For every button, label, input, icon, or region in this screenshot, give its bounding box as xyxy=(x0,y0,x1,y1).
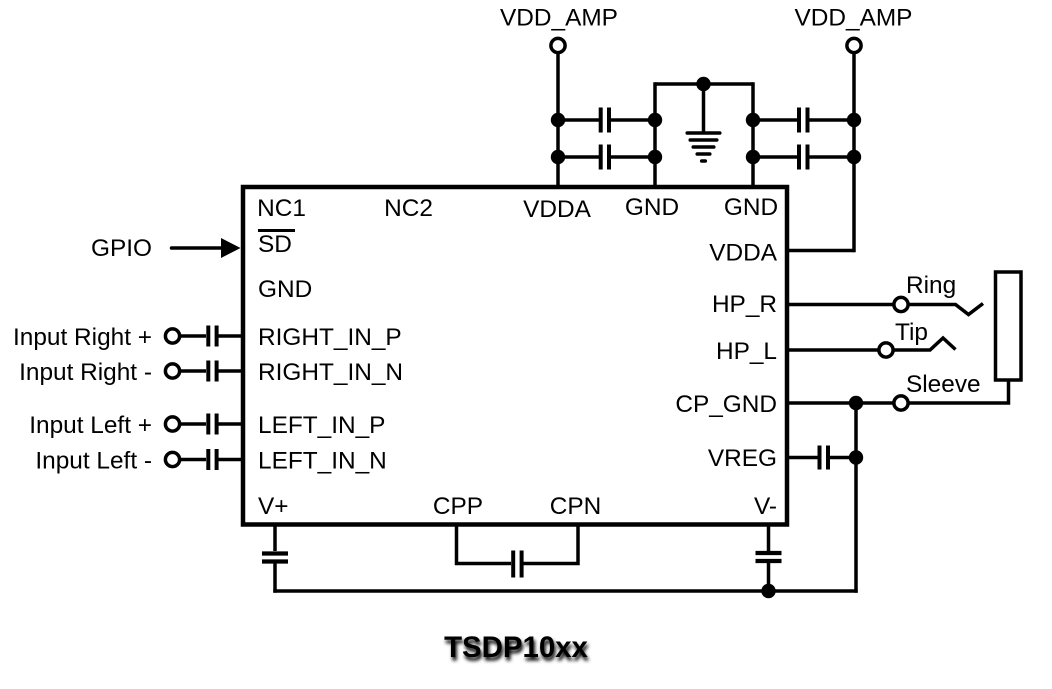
capacitor C1 xyxy=(558,108,655,133)
svg-text:TSDP10xx: TSDP10xx xyxy=(444,631,588,664)
svg-text:V-: V- xyxy=(754,493,777,520)
node junction at C2 left xyxy=(551,150,565,164)
svg-text:Ring: Ring xyxy=(906,272,956,299)
svg-text:GND: GND xyxy=(625,194,679,221)
wire Sleeve to jack xyxy=(909,379,1009,403)
svg-text:Input Left +: Input Left + xyxy=(29,412,152,439)
svg-text:RIGHT_IN_P: RIGHT_IN_P xyxy=(258,324,402,351)
node junction at C1 right xyxy=(648,113,662,127)
terminal Sleeve xyxy=(894,396,908,410)
svg-text:RIGHT_IN_N: RIGHT_IN_N xyxy=(258,359,403,386)
wire Tip switch contact xyxy=(894,338,956,350)
svg-text:HP_R: HP_R xyxy=(712,291,777,318)
capacitor C5 xyxy=(181,326,243,347)
wire GND pin 1 vertical xyxy=(653,82,657,187)
node junction V- cap at rail xyxy=(761,584,775,598)
node junction CP_GND rail xyxy=(849,396,863,410)
node junction at C2 right xyxy=(648,150,662,164)
capacitor C7 xyxy=(181,414,243,435)
svg-text:LEFT_IN_P: LEFT_IN_P xyxy=(258,412,385,439)
svg-text:NC2: NC2 xyxy=(384,195,433,222)
capacitor C10 xyxy=(262,525,288,593)
wire CP_GND to Sleeve xyxy=(786,401,894,405)
node junction at C3 right xyxy=(847,113,861,127)
node junction at C3 left xyxy=(746,113,760,127)
svg-text:CP_GND: CP_GND xyxy=(675,391,777,418)
wire bottom rail xyxy=(273,589,857,593)
svg-text:GND: GND xyxy=(724,194,778,221)
terminal VDD_AMP right xyxy=(847,38,861,52)
wire Ring switch contact xyxy=(909,304,984,315)
terminal Input Left + xyxy=(165,417,179,431)
svg-text:VDD_AMP: VDD_AMP xyxy=(500,5,618,32)
svg-text:VREG: VREG xyxy=(708,445,777,472)
svg-text:HP_L: HP_L xyxy=(716,338,777,365)
wire VDD_AMP right down to VDDA right pin xyxy=(852,53,856,252)
capacitor C9 xyxy=(786,446,856,470)
node junction at C4 right xyxy=(847,150,861,164)
terminal Input Right - xyxy=(165,364,179,378)
capacitor C11 xyxy=(457,525,579,578)
terminal Tip xyxy=(879,343,893,357)
wire GPIO arrowhead xyxy=(221,238,241,258)
capacitor C2 xyxy=(558,145,655,170)
capacitor C12 xyxy=(756,525,782,592)
svg-text:VDD_AMP: VDD_AMP xyxy=(795,5,913,32)
wire VDDA right pin xyxy=(786,249,854,253)
node junction at C1 left xyxy=(551,113,565,127)
svg-text:VDDA: VDDA xyxy=(523,196,591,223)
terminal Input Right + xyxy=(165,329,179,343)
svg-text:Sleeve: Sleeve xyxy=(906,371,981,398)
svg-text:CPP: CPP xyxy=(433,493,483,520)
ground xyxy=(687,84,720,161)
capacitor C4 xyxy=(753,145,854,170)
svg-text:Input Left -: Input Left - xyxy=(35,448,152,475)
wire HP_R to Ring contact xyxy=(786,303,894,307)
wire GND pin 2 vertical xyxy=(751,82,755,187)
svg-text:SD: SD xyxy=(258,231,292,258)
svg-text:GND: GND xyxy=(258,276,312,303)
capacitor C6 xyxy=(181,361,243,382)
capacitor C8 xyxy=(181,449,243,470)
node junction at C4 left xyxy=(746,150,760,164)
jack J1 body xyxy=(996,272,1022,380)
wire GPIO arrow shaft xyxy=(172,246,225,250)
wire HP_L to Tip contact xyxy=(786,348,879,352)
wire VDD_AMP left down to VDDA pin xyxy=(556,54,560,188)
svg-text:VDDA: VDDA xyxy=(709,240,777,267)
svg-text:GPIO: GPIO xyxy=(91,235,152,262)
svg-text:Input Right +: Input Right + xyxy=(13,324,152,351)
svg-text:Input Right -: Input Right - xyxy=(19,359,152,386)
wire top ground bus xyxy=(655,82,753,86)
svg-text:CPN: CPN xyxy=(550,493,602,520)
svg-text:V+: V+ xyxy=(258,493,289,520)
terminal Ring xyxy=(894,297,908,311)
node junction at ground tap xyxy=(696,77,710,91)
pin SD overline xyxy=(258,229,295,232)
terminal Input Left - xyxy=(165,452,179,466)
capacitor C3 xyxy=(753,108,854,133)
terminal VDD_AMP left xyxy=(551,38,565,52)
svg-text:Tip: Tip xyxy=(895,319,928,346)
wire right vertical rail xyxy=(854,403,858,593)
node junction VREG rail xyxy=(849,450,863,464)
svg-text:LEFT_IN_N: LEFT_IN_N xyxy=(258,448,387,475)
svg-text:NC1: NC1 xyxy=(257,195,306,222)
op-amp U1 TSDP10xx package body xyxy=(243,187,787,525)
